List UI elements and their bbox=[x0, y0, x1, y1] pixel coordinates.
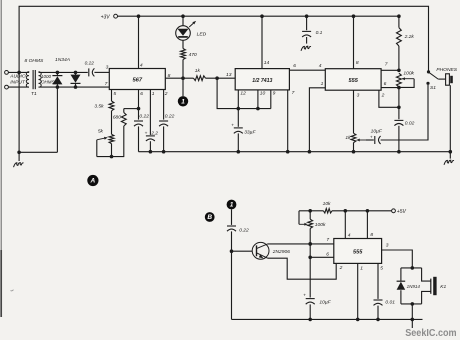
svg-text:7: 7 bbox=[292, 90, 295, 96]
wire node1 to rail B bbox=[231, 251, 233, 319]
svg-text:1: 1 bbox=[230, 202, 234, 209]
transistor Q1 2N2906 bbox=[252, 242, 269, 259]
wire 7413 pin6 to 555 pin4 bbox=[289, 69, 325, 71]
phones jack bbox=[438, 78, 445, 80]
svg-text:+: + bbox=[303, 294, 306, 299]
resistor 470 bbox=[181, 49, 186, 60]
node 1 (section B input) bbox=[227, 200, 237, 210]
wire 555B pin1 bbox=[357, 263, 359, 319]
svg-text:+: + bbox=[145, 132, 148, 137]
wire 680 top tie bbox=[124, 108, 139, 110]
svg-text:6: 6 bbox=[293, 63, 296, 69]
wire 3.5k to 5k bbox=[111, 111, 113, 134]
wire 555B pin3 out bbox=[382, 250, 413, 268]
capacitor 0.22 (B) bbox=[231, 209, 233, 225]
svg-text:6: 6 bbox=[140, 91, 143, 97]
wire base feed bbox=[232, 250, 253, 252]
svg-text:0.01: 0.01 bbox=[385, 299, 395, 305]
capacitor 0.01 bbox=[374, 299, 383, 301]
svg-text:+5V: +5V bbox=[397, 209, 407, 215]
svg-text:33µF: 33µF bbox=[244, 130, 256, 136]
stray mark bbox=[11, 290, 14, 291]
svg-text:+3V: +3V bbox=[101, 14, 111, 20]
wire relay to rail B bbox=[411, 304, 413, 328]
wire 555B pin8 bbox=[366, 211, 368, 239]
svg-text:1: 1 bbox=[152, 91, 155, 97]
svg-text:SeekIC.com: SeekIC.com bbox=[405, 328, 456, 339]
svg-text:12: 12 bbox=[240, 91, 246, 97]
potentiometer 5k bbox=[109, 134, 114, 143]
wire 555A pin1 bbox=[309, 88, 325, 152]
capacitor 0.1 bypass bbox=[306, 16, 308, 30]
svg-text:1/2 7413: 1/2 7413 bbox=[252, 78, 272, 84]
svg-text:T1: T1 bbox=[31, 91, 37, 97]
wire secondary top rail bbox=[39, 71, 88, 73]
svg-text:680: 680 bbox=[113, 115, 121, 121]
wire relay loop bottom bbox=[401, 303, 422, 305]
terminal audio input low bbox=[5, 85, 9, 89]
wire 567 pin8 out bbox=[165, 77, 193, 79]
svg-text:1: 1 bbox=[321, 81, 324, 87]
svg-text:555: 555 bbox=[353, 249, 363, 255]
svg-text:B: B bbox=[207, 214, 212, 221]
capacitor 0.22 (pin2) bbox=[159, 120, 168, 122]
svg-text:0.22: 0.22 bbox=[85, 61, 95, 67]
wiper 1k to 10uF bbox=[357, 139, 366, 141]
svg-text:2.2k: 2.2k bbox=[404, 34, 415, 40]
wire emitter to 555B pin2 bbox=[268, 258, 337, 279]
wire phones to ground rail bbox=[449, 85, 451, 152]
wire top return (input common to phones switch) bbox=[19, 6, 428, 152]
wire 567 pin6 bbox=[138, 90, 140, 120]
svg-text:INPUT: INPUT bbox=[10, 79, 26, 85]
svg-text:10k: 10k bbox=[323, 201, 331, 207]
diode D1 1N34A (anode down) bbox=[56, 72, 58, 75]
potentiometer 100k (A) bbox=[397, 73, 402, 87]
wire pin13 feedback to pins 12-10-9 bbox=[217, 78, 238, 108]
svg-text:2: 2 bbox=[339, 265, 343, 271]
svg-text:3.5k: 3.5k bbox=[94, 104, 104, 110]
svg-text:2: 2 bbox=[164, 91, 168, 97]
svg-text:6: 6 bbox=[326, 251, 329, 257]
svg-text:1: 1 bbox=[360, 265, 363, 271]
op-amp U1 567 tone decoder bbox=[109, 69, 165, 90]
wire pot bottom to pins 6-7 net bbox=[309, 228, 311, 297]
wire 5k loop bottom bbox=[111, 144, 113, 157]
svg-text:1k: 1k bbox=[345, 135, 351, 141]
svg-text:2N2906: 2N2906 bbox=[272, 249, 290, 255]
resistor 10k bbox=[323, 209, 332, 213]
capacitor 0.22 input coupling bbox=[88, 68, 90, 76]
svg-text:2.2: 2.2 bbox=[150, 131, 158, 137]
svg-text:5k: 5k bbox=[98, 128, 104, 134]
svg-text:OHMS: OHMS bbox=[41, 79, 55, 84]
svg-text:8: 8 bbox=[370, 232, 373, 238]
wire ground rail A bbox=[139, 151, 451, 153]
wire 7413 pin14 to +3V bbox=[261, 16, 263, 68]
wire 567 pin4 to +3V bbox=[138, 16, 140, 68]
svg-text:7: 7 bbox=[326, 237, 329, 243]
wire 567 pin5 bbox=[111, 90, 113, 102]
svg-text:5: 5 bbox=[380, 265, 383, 271]
resistor 3.5k bbox=[109, 101, 114, 111]
wire 555A pin3 bbox=[353, 90, 355, 133]
svg-text:555: 555 bbox=[349, 78, 359, 84]
potentiometer 100k (B) bbox=[309, 211, 311, 219]
capacitor 10uF (A) bbox=[374, 136, 376, 144]
svg-text:5: 5 bbox=[113, 91, 116, 97]
svg-text:1000: 1000 bbox=[41, 74, 52, 79]
resistor 680 bbox=[123, 109, 125, 113]
wire +5V rail B bbox=[310, 210, 323, 212]
transformer T1 bbox=[26, 72, 29, 87]
wiper 100k (B) bbox=[298, 211, 300, 225]
capacitor 0.22 (pin6) bbox=[134, 120, 143, 122]
svg-text:100k: 100k bbox=[403, 70, 414, 76]
svg-text:6: 6 bbox=[384, 81, 387, 87]
svg-text:1N914: 1N914 bbox=[407, 284, 421, 289]
terminal audio input hot bbox=[5, 71, 9, 75]
svg-text:8 OHMS: 8 OHMS bbox=[25, 58, 44, 64]
resistor 2.2k bbox=[398, 16, 400, 27]
wire secondary bottom rail (pin7 net) bbox=[39, 86, 110, 88]
svg-text:7: 7 bbox=[105, 81, 108, 87]
LED bbox=[182, 16, 184, 26]
svg-text:0.02: 0.02 bbox=[405, 120, 415, 126]
svg-text:S1: S1 bbox=[430, 85, 436, 91]
svg-text:7: 7 bbox=[385, 61, 388, 67]
svg-text:10: 10 bbox=[260, 91, 266, 97]
svg-text:14: 14 bbox=[264, 60, 270, 66]
svg-text:1N34A: 1N34A bbox=[55, 57, 70, 63]
svg-text:1: 1 bbox=[181, 99, 185, 106]
wire 555A pin6 bbox=[381, 87, 399, 89]
svg-text:3: 3 bbox=[106, 64, 109, 70]
wire relay loop top bbox=[401, 267, 422, 269]
resistor 1k (567 out) bbox=[194, 76, 206, 81]
timer U4 555 (B) bbox=[334, 239, 382, 264]
svg-text:4: 4 bbox=[319, 63, 322, 69]
terminal +5V bbox=[392, 209, 396, 213]
node B section marker bbox=[205, 212, 215, 222]
timer U3 555 bbox=[325, 69, 381, 91]
wire +3V rail bbox=[118, 15, 399, 17]
diode 1N914 bbox=[400, 268, 402, 281]
wire 567 pin2 bbox=[163, 90, 165, 120]
svg-text:9: 9 bbox=[273, 91, 276, 97]
svg-text:567: 567 bbox=[132, 78, 142, 84]
wire 555A pin7 bbox=[381, 69, 399, 71]
diode D2 1N34A (anode up) bbox=[75, 72, 77, 75]
svg-text:K1: K1 bbox=[440, 284, 446, 290]
wire 555A pin8 to +3V bbox=[353, 16, 355, 68]
node A section marker bbox=[87, 175, 98, 186]
wire diode return to ground bbox=[56, 87, 58, 152]
svg-text:4: 4 bbox=[140, 63, 143, 69]
svg-text:1k: 1k bbox=[195, 68, 201, 74]
svg-text:0.22: 0.22 bbox=[165, 114, 175, 120]
svg-text:3: 3 bbox=[357, 92, 360, 98]
wire bottom-left ground run bbox=[19, 151, 57, 153]
wire ground rail B bbox=[232, 318, 423, 320]
wire 7413 pins 12-10-9 tie bbox=[237, 90, 239, 109]
svg-text:AUDIO: AUDIO bbox=[9, 73, 26, 79]
ground (phones) bbox=[449, 152, 451, 159]
svg-text:LED: LED bbox=[197, 31, 207, 37]
svg-text:0.1: 0.1 bbox=[316, 30, 323, 36]
svg-text:470: 470 bbox=[189, 52, 197, 58]
node 1 (to section B) bbox=[182, 78, 184, 96]
gate U2 1/2 7413 bbox=[235, 69, 289, 90]
svg-text:+: + bbox=[370, 134, 373, 139]
wiper 100k (A) bbox=[402, 78, 414, 80]
wire 555B pin5 bbox=[377, 263, 379, 299]
wire 1k to 7413 pin13 bbox=[206, 77, 236, 79]
svg-text:+: + bbox=[231, 124, 234, 129]
page edge artifact bbox=[0, 0, 2, 250]
wire 100k to 0.02 bbox=[398, 88, 400, 120]
svg-text:0.22: 0.22 bbox=[239, 227, 249, 233]
svg-text:A: A bbox=[90, 178, 96, 185]
capacitor 10uF (B) bbox=[306, 298, 315, 300]
switch S1 bbox=[427, 70, 430, 73]
svg-text:8: 8 bbox=[356, 60, 359, 66]
wire 10uF to switch bbox=[381, 85, 428, 140]
svg-text:100k: 100k bbox=[315, 222, 326, 228]
svg-text:4: 4 bbox=[348, 232, 351, 238]
svg-text:2: 2 bbox=[381, 92, 385, 98]
potentiometer 1k (output level) bbox=[351, 133, 356, 142]
wire 555B pin4 bbox=[344, 211, 346, 239]
relay K1 bbox=[422, 268, 431, 281]
svg-text:10µF: 10µF bbox=[319, 300, 331, 306]
ground (input common) bbox=[18, 152, 20, 161]
svg-text:PHONES: PHONES bbox=[436, 67, 457, 73]
wire 555B pin6 tie bbox=[310, 256, 334, 258]
wire 567 pin1 bbox=[149, 90, 151, 135]
wire 555A pin2 bbox=[379, 90, 399, 107]
capacitor 0.02 bbox=[394, 119, 403, 121]
svg-text:0.22: 0.22 bbox=[139, 114, 149, 120]
capacitor 2.2 electrolytic bbox=[146, 135, 155, 137]
capacitor 33uF electrolytic bbox=[237, 109, 239, 127]
wire 7413 pin7 to ground rail bbox=[287, 90, 289, 152]
svg-text:3: 3 bbox=[386, 242, 389, 248]
svg-text:13: 13 bbox=[226, 72, 232, 78]
terminal +3V bbox=[114, 14, 118, 18]
wiper 5k bbox=[96, 140, 98, 157]
wire collector to 555B pin7 bbox=[268, 243, 334, 245]
